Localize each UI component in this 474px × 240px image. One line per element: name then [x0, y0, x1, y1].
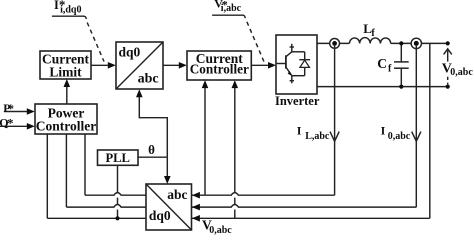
svg-text:abc: abc [167, 187, 187, 202]
block Current Controller [187, 51, 251, 80]
label V*_i,abc leader underline [212, 15, 245, 18]
svg-text:0,abc: 0,abc [450, 67, 473, 78]
wire theta up branch to top dq0/abc [139, 96, 167, 157]
wire sensor 2 sense line [415, 46, 417, 207]
wire Current Controller to Inverter [251, 64, 269, 66]
wire voltage tap line [429, 43, 431, 218]
wire feedback line 3 V_0,abc horizontal [47, 217, 430, 219]
svg-text:θ: θ [148, 142, 155, 157]
current sensor 2 [411, 38, 421, 48]
node P* arrowhead [27, 108, 35, 115]
svg-text:dq0: dq0 [149, 208, 171, 223]
block abc to dq0 transform [146, 184, 192, 230]
svg-text:C: C [377, 56, 387, 71]
node I_0,abc arrowhead chevron [412, 132, 421, 142]
label V*_i,abc dashed leader [247, 22, 265, 64]
svg-text:*: * [8, 101, 15, 116]
current sensor 1 [330, 39, 340, 49]
svg-text:0,abc: 0,abc [388, 131, 411, 142]
wire P* input [4, 111, 29, 113]
wire Q* input [0, 125, 29, 127]
wire feedback line 2 I_0,abc horizontal [66, 205, 416, 208]
svg-text:L,abc: L,abc [305, 131, 330, 142]
transistor IGBT with diode inside inverter [277, 44, 311, 84]
block Inverter [276, 35, 317, 94]
wire top power line inverter to L_f [317, 42, 349, 44]
inductor L_f [349, 38, 390, 44]
svg-text:I: I [381, 124, 386, 138]
svg-text:abc: abc [138, 72, 159, 87]
wire PLL input tap [117, 165, 119, 218]
svg-text:Inverter: Inverter [275, 94, 320, 108]
wire Power Controller bottom lead 1 [84, 134, 86, 195]
wire Power Controller bottom lead 3 [46, 134, 48, 218]
node feedback arrowheads into abc/dq0 block [192, 192, 200, 199]
wire theta down branch to bottom abc/dq0 [166, 157, 168, 177]
block PLL [98, 150, 139, 165]
block Current Limit [40, 51, 91, 79]
wire sensor 1 sense line [334, 46, 336, 195]
svg-text:Controller: Controller [36, 118, 97, 133]
wire Power Controller bottom lead 2 [65, 134, 67, 207]
label I*_i,dq0 dashed leader [87, 23, 104, 62]
svg-text:I: I [297, 124, 302, 138]
wire dq0/abc to Current Controller [163, 64, 181, 66]
svg-text:i,abc: i,abc [221, 3, 242, 14]
svg-text:Controller: Controller [190, 62, 249, 77]
V_0,abc measurement arrow [444, 49, 452, 85]
wire top power line L_f to end [391, 42, 448, 44]
wire feedback line 1 I_L,abc horizontal [85, 193, 335, 196]
svg-text:0,abc: 0,abc [209, 225, 232, 236]
wire Power Controller to Current Limit [66, 86, 68, 105]
node Q* arrowhead [27, 123, 35, 130]
svg-text:*: * [7, 116, 14, 131]
capacitor C_f [394, 41, 409, 88]
node I_L,abc arrowhead chevron [330, 132, 339, 142]
wire theta net PLL to junction [138, 156, 167, 158]
svg-text:i,dq0: i,dq0 [60, 4, 81, 15]
label I*_i,dq0 leader underline [52, 16, 87, 19]
node bottom wire end dot [446, 85, 450, 89]
wire bottom power line [317, 86, 448, 88]
wire Current Limit to dq0/abc block [91, 64, 110, 66]
wire Current Controller feedback input 2 [234, 87, 236, 218]
block Power Controller [35, 104, 97, 134]
svg-text:PLL: PLL [105, 151, 130, 165]
node top wire end dot [446, 41, 450, 45]
block dq0 to abc transform [116, 42, 163, 89]
node PLL tap junction dot [115, 216, 119, 220]
wire Current Controller feedback input 1 [204, 87, 206, 195]
svg-text:dq0: dq0 [119, 44, 141, 59]
svg-text:Limit: Limit [49, 64, 82, 79]
